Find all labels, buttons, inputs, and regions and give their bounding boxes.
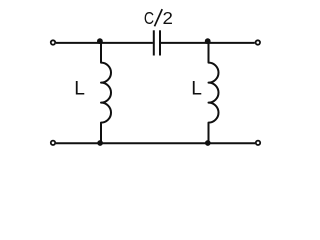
terminal bottom-left — [51, 141, 55, 145]
inductor L (right) — [209, 42, 219, 143]
terminal bottom-right — [256, 141, 260, 145]
inductor L (left) — [101, 42, 111, 143]
node junction bottom-right — [205, 140, 211, 146]
node junction top-right — [205, 38, 211, 44]
svg-text:L: L — [74, 78, 85, 99]
wire top rail right segment — [161, 42, 255, 44]
capacitor C/2 left plate — [153, 30, 155, 55]
wire bottom rail — [56, 142, 255, 144]
terminal top-left — [51, 40, 55, 44]
svg-text:2: 2 — [163, 8, 173, 28]
node junction top-left — [97, 38, 103, 44]
label slash of C/2 — [155, 9, 163, 26]
svg-text:C: C — [144, 8, 154, 28]
capacitor C/2 right plate — [159, 30, 161, 55]
terminal top-right — [256, 40, 260, 44]
svg-text:L: L — [191, 78, 202, 99]
node junction bottom-left — [97, 140, 103, 146]
wire top rail left segment — [56, 42, 153, 44]
